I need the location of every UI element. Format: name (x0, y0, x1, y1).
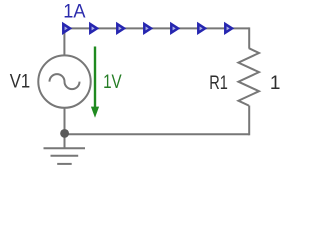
current arrow 2 (90, 24, 97, 33)
wire bottom horizontal (65, 133, 250, 135)
current arrow 3 (117, 24, 124, 33)
svg-text:1: 1 (270, 73, 281, 94)
wire right vertical lower (248, 106, 250, 136)
svg-text:1V: 1V (103, 72, 122, 93)
resistor R1 zigzag (238, 48, 259, 105)
svg-text:V1: V1 (10, 72, 30, 93)
current arrow 5 (171, 24, 178, 33)
voltage source V1 circle (38, 55, 90, 107)
current arrow 6 (198, 24, 205, 33)
voltage arrow shaft (green) (94, 47, 96, 109)
svg-text:R1: R1 (209, 73, 228, 94)
voltage source V1 sine wave (50, 74, 80, 89)
wire right vertical upper (248, 27, 250, 48)
wire left vertical upper (63, 27, 65, 55)
current arrow 1 (63, 24, 70, 33)
ground bar 3 (57, 163, 71, 165)
ground stub (64, 134, 66, 148)
svg-text:1A: 1A (63, 2, 86, 23)
voltage arrow head (green) (91, 107, 99, 118)
current arrow 4 (144, 24, 151, 33)
current arrow 7 (225, 24, 232, 33)
wire top horizontal (64, 27, 249, 29)
junction dot (60, 129, 69, 138)
wire left vertical lower (64, 108, 66, 134)
ground bar 2 (51, 155, 79, 157)
ground bar 1 (44, 147, 86, 149)
